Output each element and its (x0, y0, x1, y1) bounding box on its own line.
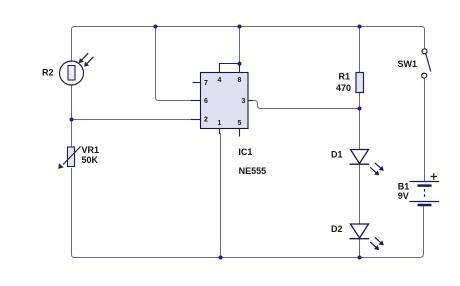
junction node R1 bottom / pin3 (358, 107, 362, 111)
svg-text:50K: 50K (82, 155, 99, 165)
junction node on top rail at pins4/8 branch (238, 25, 242, 29)
svg-text:VR1: VR1 (82, 145, 100, 155)
LED D2 (350, 224, 370, 239)
wire D2 to bottom rail (359, 238, 361, 258)
wire LDR bottom lead through junction to VR1 (71, 85, 73, 147)
pin 7 stub (193, 82, 201, 84)
svg-text:D2: D2 (331, 224, 343, 234)
LED D2 arrows (375, 237, 384, 245)
svg-text:7: 7 (204, 80, 208, 87)
svg-text:470: 470 (336, 83, 351, 93)
wire pin 3 to R1 bottom junction (252, 101, 360, 109)
svg-text:8: 8 (238, 77, 242, 84)
svg-text:NE555: NE555 (239, 166, 267, 176)
svg-text:5: 5 (238, 120, 242, 127)
battery plus sign (431, 173, 438, 180)
svg-text:B1: B1 (398, 181, 410, 191)
junction node on top rail at R1 branch (358, 25, 362, 29)
pin 4 and pin 8 top connector (220, 64, 240, 73)
junction node pins 4/8 (237, 62, 241, 66)
wire pin 1 down to bottom rail (220, 133, 222, 258)
svg-text:1: 1 (218, 120, 222, 127)
wire from LDR junction to pin 2 (72, 119, 193, 121)
wire R1 bottom through junction to D1 (359, 92, 361, 150)
resistor R1 (356, 73, 364, 93)
svg-text:R2: R2 (42, 68, 54, 78)
LED D1 (350, 150, 370, 165)
svg-text:D1: D1 (331, 150, 343, 160)
wire top rail to R1 top (359, 27, 361, 74)
svg-text:SW1: SW1 (398, 59, 418, 69)
wire branch from top rail down to pins 4/8 junction (239, 27, 241, 64)
junction node LDR/VR1/pin2 (70, 118, 74, 122)
svg-text:IC1: IC1 (238, 147, 252, 157)
svg-text:4: 4 (218, 77, 222, 84)
switch SW1 (422, 49, 431, 78)
battery B1 (410, 182, 440, 206)
svg-text:9V: 9V (398, 191, 409, 201)
wire D1 to D2 (359, 164, 361, 224)
LDR light arrows (79, 53, 88, 63)
wire branch from top rail down to pin 6 (156, 27, 193, 101)
wire bottom rail middle (221, 257, 360, 259)
junction node bottom rail D2 (358, 256, 362, 260)
junction node on top rail at pin6 branch (154, 25, 158, 29)
timer IC1 NE555 body (191, 64, 253, 137)
LED D1 arrows (375, 163, 384, 171)
pin 1 stub (219, 129, 221, 135)
wire VR1 bottom to bottom rail (72, 168, 221, 258)
svg-text:R1: R1 (339, 72, 351, 82)
svg-text:3: 3 (242, 98, 246, 105)
photoresistor R2 (LDR) (60, 61, 84, 85)
wire top rail from LDR top over to switch SW1 (72, 27, 425, 62)
pin 6 stub (191, 100, 201, 102)
pin 2 stub (191, 119, 201, 121)
pin 5 stub (239, 129, 241, 137)
svg-text:6: 6 (204, 98, 208, 105)
svg-text:2: 2 (204, 116, 208, 123)
junction node bottom rail pin1 (219, 256, 223, 260)
wire switch bottom to battery top (424, 79, 426, 183)
potentiometer VR1 (59, 147, 81, 169)
wire bottom rail right with corner up to battery (360, 205, 424, 258)
pin 3 stub (248, 100, 253, 102)
